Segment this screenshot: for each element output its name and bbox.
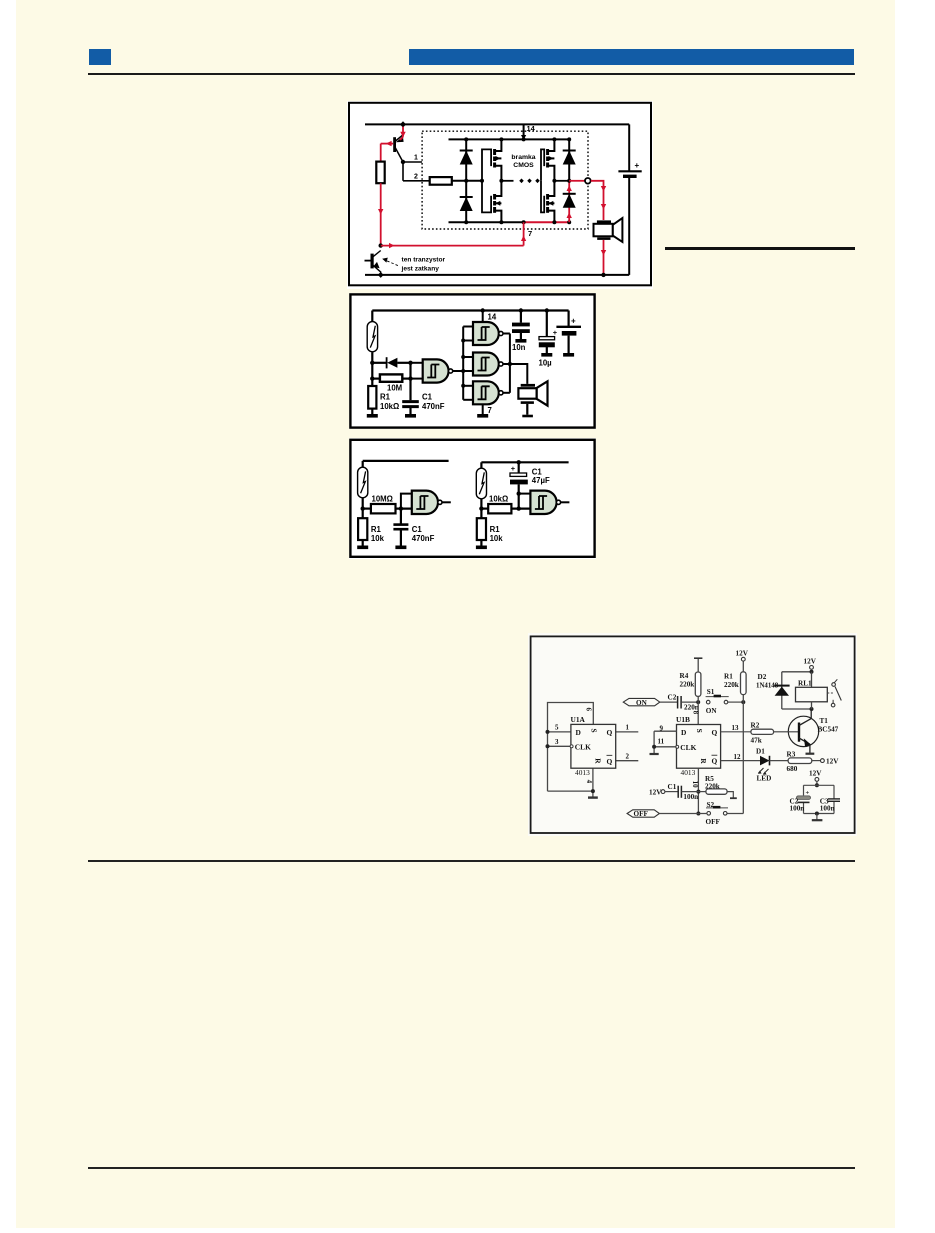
U1A D wire: [548, 731, 571, 733]
transistor Q2 bottom-left: [365, 251, 381, 275]
12V above relay: [810, 666, 814, 670]
bottom rule: [88, 1167, 855, 1169]
FIGURE 3 : two RC Schmitt input circuits: [349, 438, 596, 559]
gate input bracket right pair: [541, 149, 544, 212]
capacitor C1: [409, 363, 411, 400]
svg-text:+: +: [511, 464, 516, 473]
capacitor 10n: [519, 308, 523, 312]
svg-text:D1: D1: [756, 748, 765, 756]
svg-text:C1: C1: [532, 467, 543, 476]
red wire: left vertical lower: [380, 183, 382, 245]
svg-text:ON: ON: [636, 699, 648, 707]
pin 7 stub + ground: [482, 404, 484, 414]
svg-text:Q: Q: [607, 757, 613, 766]
svg-text:13: 13: [732, 724, 740, 732]
svg-text:T1: T1: [820, 717, 829, 725]
node: top junction diamond: [400, 121, 406, 127]
svg-text:CMOS: CMOS: [513, 162, 534, 169]
wire: battery vertical top: [628, 124, 630, 170]
wire: upper gate input right: [519, 493, 531, 495]
svg-text:bramka: bramka: [511, 154, 535, 161]
svg-text:Q: Q: [712, 728, 718, 737]
svg-text:47µF: 47µF: [532, 476, 550, 485]
svg-text:1: 1: [414, 155, 418, 162]
node: gate input: [480, 179, 484, 183]
resistor (input, horizontal): [430, 177, 452, 185]
svg-text:R2: R2: [751, 722, 760, 730]
wire S1 to R1 junction: [728, 701, 744, 703]
svg-text:12V: 12V: [826, 757, 839, 765]
gate U4: [473, 381, 503, 404]
svg-text:R: R: [594, 758, 603, 764]
gate U3: [473, 353, 503, 376]
svg-text:12: 12: [734, 753, 742, 761]
C1 right (47uF): [517, 460, 521, 464]
node: speaker to bottom rail: [601, 273, 605, 277]
svg-text:D: D: [681, 728, 686, 737]
svg-text:10MΩ: 10MΩ: [372, 495, 393, 504]
dotted IC boundary: [422, 131, 588, 229]
figure 3 panel: [349, 438, 596, 559]
CLK bubble U1A: [570, 745, 573, 748]
svg-text:6: 6: [585, 708, 593, 712]
arrow: Q1 emitter (pnp, into base): [396, 136, 404, 142]
figure 4 frame: [531, 636, 855, 833]
red arrow: down after speaker: [601, 250, 606, 256]
wire: top rail right: [481, 461, 568, 463]
svg-text:470nF: 470nF: [412, 534, 435, 543]
svg-text:CLK: CLK: [680, 743, 696, 752]
gate input bracket left pair: [482, 149, 491, 212]
svg-text:C1: C1: [668, 783, 677, 791]
U1A box: [571, 724, 616, 768]
node dots on rails: [464, 137, 468, 141]
svg-text:14: 14: [488, 313, 497, 322]
wire: input row to resistor: [403, 180, 430, 182]
wire: node1 collector lead: [403, 161, 422, 163]
svg-text:ten tranzystor: ten tranzystor: [402, 256, 446, 263]
svg-text:U1A: U1A: [571, 715, 586, 724]
node: Q2 emitter to rail diamond: [378, 272, 384, 278]
svg-text:100n: 100n: [790, 805, 805, 813]
wire: resistor to gate input: [452, 180, 482, 182]
wire: upper gate input: [401, 494, 412, 509]
svg-text:OFF: OFF: [706, 818, 721, 826]
svg-text:2: 2: [626, 753, 630, 761]
R1 left: [362, 517, 364, 519]
svg-text:5: 5: [555, 724, 559, 732]
svg-text:8: 8: [691, 711, 699, 715]
svg-text:R4: R4: [680, 672, 689, 680]
red wire: output to speaker branch: [591, 181, 604, 220]
node dots left: [370, 361, 374, 365]
diode chain right vertical black upper: [568, 139, 570, 180]
red wire: out of Q1 base: [381, 143, 393, 145]
svg-text:10k: 10k: [490, 534, 504, 543]
diode D lower-left: [460, 196, 473, 198]
node: output junction red: [567, 179, 571, 183]
svg-text:4013: 4013: [681, 768, 696, 777]
header rule: [88, 73, 855, 75]
node: diode chain mid left: [464, 179, 468, 183]
mosfet M2 (nmos lower-left): [495, 181, 502, 222]
ON tag: [623, 698, 660, 705]
U1B left ground: [650, 753, 659, 755]
svg-text:100n: 100n: [820, 805, 835, 813]
wire: top rail left: [363, 460, 449, 462]
gate U1 (Schmitt NAND): [423, 359, 453, 382]
wire OFF to S2: [659, 813, 707, 815]
red arrow: up into pin7: [521, 235, 526, 241]
svg-text:OFF: OFF: [634, 810, 649, 818]
red arrow: down to speaker 1: [601, 186, 606, 192]
red wire: output through lower diode: [568, 181, 570, 222]
diode D lower-right: [563, 193, 576, 195]
relay top/bottom loop: [782, 671, 812, 673]
svg-text:10kΩ: 10kΩ: [380, 402, 399, 411]
svg-text:3: 3: [555, 738, 559, 746]
svg-text:S: S: [590, 729, 599, 733]
svg-text:+: +: [553, 328, 558, 337]
svg-text:12V: 12V: [809, 770, 822, 778]
node: S pin junction: [696, 700, 700, 704]
input bus vertical: [462, 327, 464, 400]
relay contact: [827, 692, 834, 694]
sensor (piezo): [367, 322, 377, 352]
LED arrows: [759, 768, 764, 773]
figure 3 frame: [350, 440, 594, 557]
U1A bottom loop: [548, 790, 593, 792]
wire: pin 14 drop: [523, 124, 525, 136]
node after resistor: [399, 506, 403, 510]
svg-text:jest zatkany: jest zatkany: [401, 266, 440, 273]
svg-text:C1: C1: [422, 393, 433, 402]
svg-text:10µ: 10µ: [539, 359, 553, 368]
svg-text:100n: 100n: [683, 793, 698, 801]
wire: sensor to node: [371, 353, 373, 379]
R4 supply stub: [697, 659, 699, 673]
red wire: speaker to bottom: [603, 240, 605, 275]
arrow: M2 bulk: [496, 201, 501, 206]
wire: output row to diode chain: [554, 180, 569, 182]
R1 right: [477, 518, 486, 540]
red wire: pin 7 rise: [523, 222, 525, 245]
right column rule: [665, 247, 855, 250]
svg-text:+: +: [806, 790, 810, 797]
wire: inner VDD rail: [449, 138, 570, 140]
svg-text:LED: LED: [757, 775, 772, 783]
node after resistor: [517, 506, 521, 510]
dots (continuation): [519, 179, 524, 184]
node dots U1A: [546, 730, 550, 734]
wire ON to C2: [660, 701, 678, 703]
mosfet M1 (pmos upper-left): [495, 139, 502, 180]
arrow: M1 bulk: [496, 156, 501, 161]
U1B D/CLK wires: [654, 731, 676, 754]
ground R1: [367, 414, 378, 418]
U1A Q wire: [616, 731, 639, 733]
battery B1: [618, 161, 641, 178]
svg-text:14: 14: [527, 124, 536, 133]
svg-text:R1: R1: [724, 673, 733, 681]
wire: sensor drop: [371, 311, 373, 323]
U1A feedback loop top: [548, 703, 594, 792]
resistor 10kOhm: [481, 508, 488, 510]
wire: bottom return: [365, 274, 629, 276]
svg-text:11: 11: [658, 738, 665, 746]
ground C1: [405, 414, 416, 418]
C2 cap: [797, 796, 811, 800]
sensor left: [362, 461, 364, 468]
U1A CLK wire: [548, 745, 571, 747]
svg-text:ON: ON: [706, 707, 718, 715]
svg-text:220k: 220k: [680, 681, 695, 689]
svg-text:R1: R1: [490, 525, 501, 534]
svg-text:S: S: [695, 729, 704, 733]
node: [361, 506, 365, 510]
figure 2 frame: [350, 294, 594, 427]
node: gate upper input tap: [517, 491, 521, 495]
arrow: M3 bulk: [549, 156, 554, 161]
transistor T1: [788, 716, 818, 746]
gate U2 input stubs: [463, 326, 473, 328]
C3 cap: [828, 798, 840, 800]
U1A R pin wire: [592, 768, 594, 791]
long bus down from R1 junction: [742, 702, 744, 813]
FIGURE 1 : CMOS gate internals with red current path: [347, 101, 653, 289]
gate left: [412, 491, 442, 514]
svg-text:220k: 220k: [724, 681, 739, 689]
battery fig2: [567, 311, 569, 327]
svg-text:R1: R1: [371, 525, 382, 534]
transistor Q1 top-left: [395, 135, 403, 162]
figure 2 panel: [349, 293, 596, 429]
red wire: drop from top node: [400, 127, 403, 140]
OFF tag: [627, 810, 659, 817]
arrow: pin 14 into rail: [521, 135, 526, 140]
red arrow: down to speaker 2: [601, 204, 606, 210]
svg-text:680: 680: [787, 765, 798, 773]
red arrow: right along pin7 feed: [389, 243, 395, 248]
resistor 10MOhm: [363, 508, 371, 510]
svg-text:+: +: [571, 317, 576, 326]
red arrow: down into Q1 emitter: [400, 132, 405, 138]
svg-text:10M: 10M: [387, 384, 402, 393]
diode D (points left): [372, 362, 386, 364]
red arrow: base current leftward: [386, 141, 392, 146]
U1A Qbar wire: [616, 760, 639, 762]
resistor R (left, vertical): [376, 162, 384, 184]
bus to S2: [727, 813, 743, 815]
node: red to bottom transistor: [379, 243, 383, 247]
Qbar wire (12): [721, 760, 760, 762]
figure 1 frame: [349, 103, 651, 285]
wire: top supply: [365, 123, 629, 125]
svg-text:D: D: [576, 728, 581, 737]
svg-text:R: R: [699, 758, 708, 764]
wire: U1 out to bus: [453, 370, 464, 372]
svg-text:D2: D2: [758, 673, 767, 681]
output pin circle: [585, 178, 591, 184]
U1B box: [677, 725, 721, 769]
svg-text:12V: 12V: [649, 788, 662, 796]
svg-text:Q: Q: [607, 728, 613, 737]
Q wire (13): [721, 731, 751, 733]
svg-text:12V: 12V: [736, 650, 749, 658]
pin 14 stub: [482, 311, 484, 323]
svg-text:4: 4: [585, 780, 593, 784]
blue header bar right: [409, 49, 854, 65]
ground speaker: [522, 415, 533, 418]
R1 12V terminal: [742, 661, 744, 672]
figure 1 panel: [347, 101, 653, 289]
annotation arrow to Q2: [385, 260, 398, 266]
arrow: M4 bulk: [549, 201, 554, 206]
svg-text:10k: 10k: [371, 534, 385, 543]
resistor 10M: [372, 378, 380, 380]
svg-text:Q: Q: [712, 757, 718, 766]
svg-text:CLK: CLK: [575, 743, 591, 752]
mid page rule: [88, 860, 855, 862]
output bus vertical: [503, 333, 510, 335]
C1 left: [400, 509, 402, 525]
wire: inner VSS rail: [449, 221, 526, 223]
wire: down to input row: [402, 162, 404, 181]
sensor right: [480, 462, 482, 469]
T1 collector up: [810, 709, 812, 719]
svg-text:12V: 12V: [804, 658, 817, 666]
svg-text:4013: 4013: [575, 768, 590, 777]
node: input node: [401, 160, 405, 164]
U1A ground: [592, 791, 594, 797]
node: right inverter output: [552, 179, 556, 183]
red arrow: up through diode 1: [567, 186, 572, 192]
wire: left inverter output stub: [501, 180, 513, 182]
resistor R1: [371, 379, 373, 386]
svg-text:7: 7: [528, 229, 532, 238]
mosfet M3 (pmos upper-right): [548, 139, 555, 180]
svg-text:+: +: [635, 161, 640, 170]
gate U4 input stubs: [463, 385, 473, 387]
gate U1 inputs: [411, 362, 423, 364]
node dots at C1 top: [408, 361, 412, 365]
svg-text:470nF: 470nF: [422, 402, 445, 411]
speaker LS1: [594, 218, 623, 242]
red arrow: up through diode 2: [567, 213, 572, 219]
capacitor 10u: [545, 308, 549, 312]
svg-text:RL1: RL1: [798, 680, 812, 688]
red arrow: down left: [378, 209, 383, 215]
wire: junction to U1B S pin: [697, 702, 699, 724]
svg-text:R1: R1: [380, 393, 391, 402]
red wire: left vertical upper: [380, 144, 382, 162]
wire: to speaker: [510, 364, 527, 384]
red wire: to output pin: [569, 180, 584, 182]
svg-text:C1: C1: [412, 525, 423, 534]
speaker LS: [518, 381, 547, 405]
red wire: horizontal to pin 7: [381, 245, 524, 247]
svg-text:BC547: BC547: [818, 726, 839, 734]
svg-text:2: 2: [414, 173, 418, 180]
figure 4 panel: [528, 633, 857, 836]
svg-text:S1: S1: [707, 688, 715, 696]
arrow: Q2 emitter: [373, 262, 380, 268]
svg-text:7: 7: [488, 406, 492, 415]
mosfet M4 (nmos lower-right): [548, 181, 555, 222]
diode chain left vertical: [465, 139, 467, 222]
svg-text:10kΩ: 10kΩ: [489, 495, 508, 504]
blue header block left: [89, 49, 111, 65]
wire: top rail: [372, 309, 568, 311]
svg-text:U1B: U1B: [676, 715, 690, 724]
FIGURE 2 : Schmitt NAND oscillator with speaker: [349, 293, 596, 429]
wire: inner VSS rail red segment: [524, 221, 570, 223]
gate U3 input stubs: [463, 356, 473, 358]
gate right: [530, 491, 560, 514]
T1 emitter down + ground: [809, 744, 811, 753]
wire: battery vertical bottom: [628, 178, 630, 275]
svg-text:47k: 47k: [751, 737, 762, 745]
diode D upper-left: [460, 150, 473, 152]
svg-text:10n: 10n: [512, 343, 526, 352]
pin10 wire down: [697, 768, 699, 813]
diode D upper-right: [563, 150, 576, 152]
gate U2: [473, 322, 503, 345]
svg-text:C2: C2: [668, 694, 677, 702]
svg-text:1: 1: [626, 724, 630, 732]
FIGURE 4 : 4013 flip-flop relay driver: [528, 633, 857, 836]
